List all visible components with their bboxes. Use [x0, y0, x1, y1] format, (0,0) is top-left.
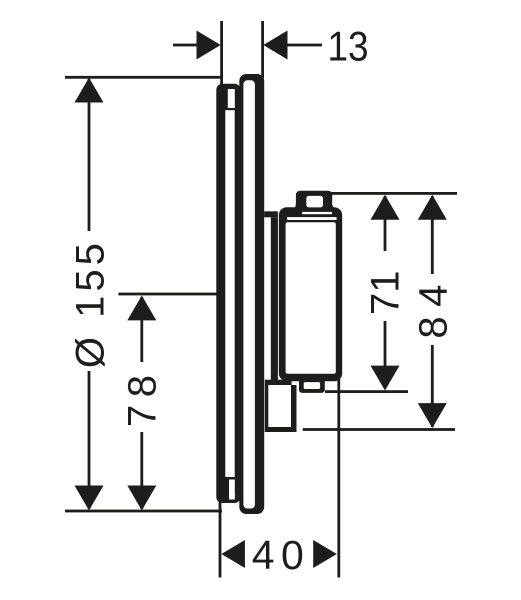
dimension 84: top arrow: [418, 195, 447, 220]
dimension 13: left arrow: [197, 31, 221, 60]
dimension 71: line upper segment: [384, 196, 387, 251]
dimension 71: bottom arrow: [371, 366, 400, 391]
top tab of handle: [294, 191, 334, 210]
extension line: plate top (for 155): [65, 76, 223, 79]
bottom tab of handle: [299, 381, 325, 393]
extension line: handle back face (down to 40): [337, 378, 340, 578]
dimension 155: top arrow: [75, 78, 104, 103]
dimension 84: bottom arrow: [418, 403, 447, 428]
dimension 78: line upper segment: [140, 297, 143, 362]
dimension 13: right arrow: [263, 31, 287, 60]
dimension 40: left arrow: [221, 540, 245, 568]
collar between plate and handle: [264, 211, 291, 385]
dimension 13: left tail: [173, 44, 197, 47]
extension line: handle top (for 71 and 84): [331, 192, 457, 195]
svg-text:84: 84: [411, 275, 455, 339]
svg-text:78: 78: [121, 367, 165, 427]
dimension 40: right arrow: [313, 540, 337, 568]
dimension 155: line lower segment: [88, 371, 91, 509]
dimension 155: line upper segment: [88, 79, 91, 231]
front plate (13 mm escutcheon, side view): [235, 74, 264, 514]
svg-text:Ø 155: Ø 155: [69, 239, 113, 368]
dimension 71: line lower segment: [384, 321, 387, 388]
svg-text:40: 40: [252, 532, 311, 578]
dimension 71: top arrow: [371, 195, 400, 220]
dimension 84: line lower segment: [431, 345, 434, 427]
svg-text:13: 13: [327, 23, 368, 70]
extension line: wall plane (bottom, for 40): [219, 496, 222, 578]
dimension 78: bottom arrow: [127, 486, 156, 511]
valve housing below handle: [265, 385, 297, 432]
svg-text:71: 71: [364, 270, 408, 315]
wall-plate rear escutcheon (side view): [216, 84, 240, 503]
extension line: housing bottom (for 84): [303, 428, 455, 431]
dimension 78: top arrow: [127, 296, 156, 321]
extension line: handle bottom tab (for 71): [325, 390, 408, 393]
dimension 78: line lower segment: [140, 432, 143, 509]
extension line: middle (for 78): [118, 293, 221, 296]
extension line: plate front face (top): [261, 21, 264, 78]
dimension 84: line upper segment: [431, 196, 434, 274]
extension line: wall plane (top): [220, 21, 223, 90]
dimension 13: right tail: [288, 44, 323, 47]
dimension 155: bottom arrow: [75, 486, 104, 511]
extension line: plate bottom (for 155 and 78): [65, 510, 222, 513]
handle body: [279, 207, 342, 381]
